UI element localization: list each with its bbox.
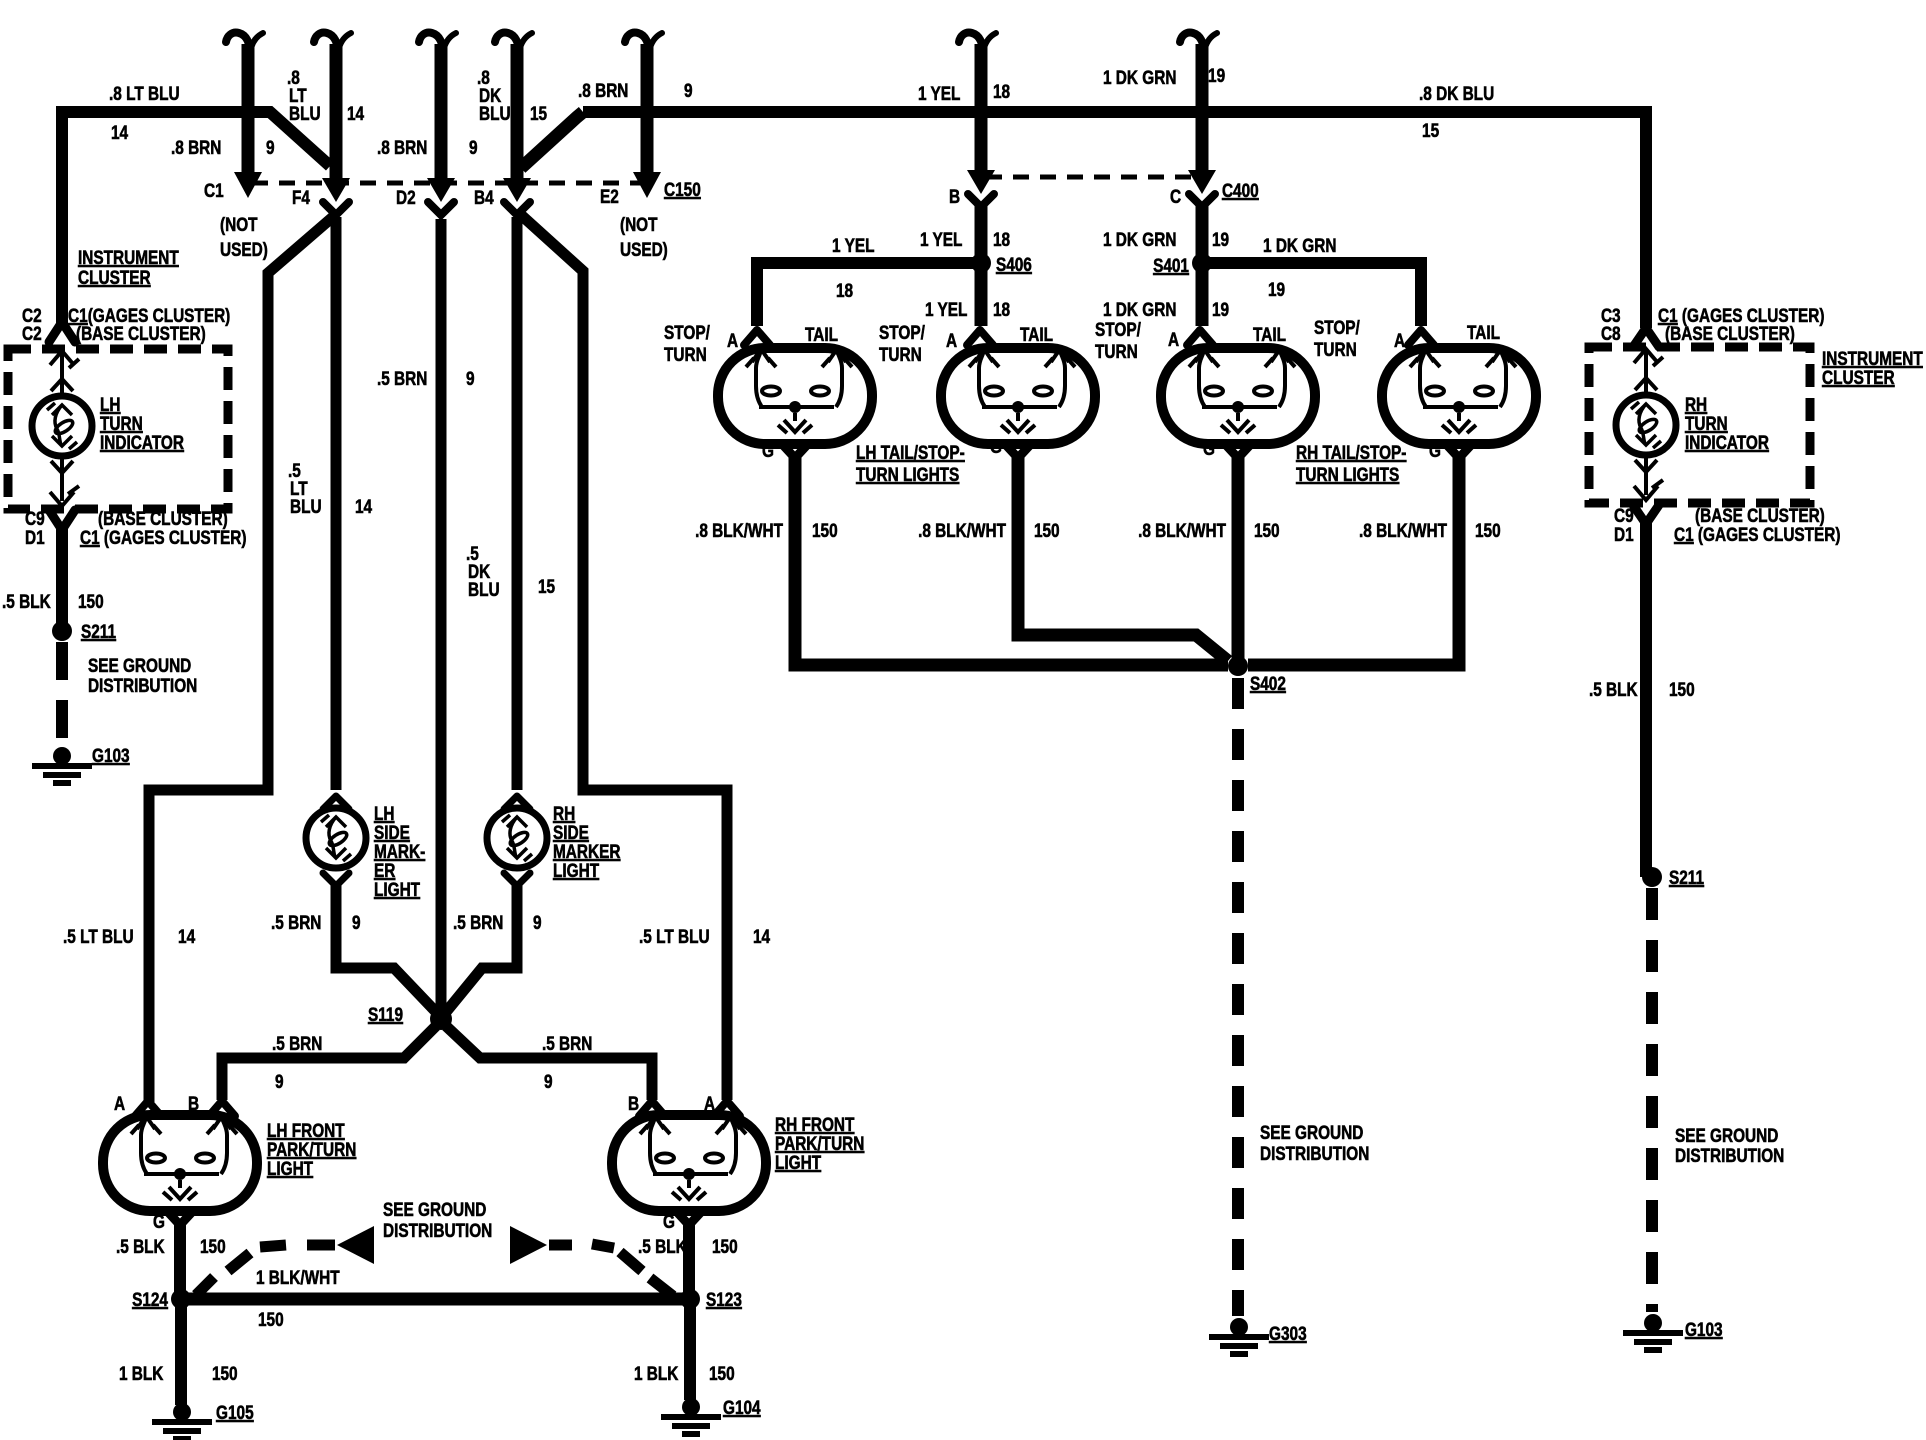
label S211 (right) bbox=[1669, 866, 1704, 888]
arrow out of cluster box bottom bbox=[50, 486, 79, 506]
label D2 bbox=[396, 186, 416, 208]
svg-text:1 YEL: 1 YEL bbox=[918, 82, 961, 104]
svg-text:TURN LIGHTS: TURN LIGHTS bbox=[1296, 463, 1399, 485]
svg-text:G: G bbox=[663, 1210, 675, 1232]
svg-text:A: A bbox=[1168, 328, 1180, 350]
svg-text:.5 BLK: .5 BLK bbox=[638, 1235, 687, 1257]
label G303 bbox=[1269, 1322, 1307, 1344]
arrow into cluster box top bbox=[50, 351, 79, 368]
hook top of E2 wire bbox=[625, 33, 662, 54]
label A (LH front) bbox=[114, 1092, 126, 1114]
svg-text:18: 18 bbox=[836, 279, 853, 301]
svg-text:INSTRUMENT: INSTRUMENT bbox=[78, 246, 179, 268]
label 15 (RH marker feed) bbox=[538, 575, 555, 597]
label .5 BLK (RH front ground) bbox=[638, 1235, 687, 1257]
wire: .8 BLK/WHT 150 ground from LH inner tail lamp toward S402 bbox=[1018, 456, 1228, 661]
svg-text:19: 19 bbox=[1212, 228, 1229, 250]
splice S119 bbox=[430, 1008, 452, 1030]
svg-text:B: B bbox=[188, 1092, 199, 1114]
connector fork at LH inner tail lamp A terminal bbox=[967, 330, 993, 345]
label STOP/TURN lamp3 bbox=[1095, 318, 1141, 362]
svg-text:G: G bbox=[1429, 439, 1441, 461]
ground G104 bbox=[661, 1398, 721, 1434]
wire: 1 BLK 150 from S123 to G104 bbox=[684, 1305, 696, 1400]
label 19 (S401 right branch) bbox=[1268, 278, 1285, 300]
label RH TURN INDICATOR bbox=[1685, 393, 1769, 453]
label 1 DK GRN (C wire top) bbox=[1103, 66, 1176, 88]
label TAIL lamp2 bbox=[1020, 323, 1053, 345]
svg-text:SEE GROUND: SEE GROUND bbox=[1675, 1124, 1778, 1146]
label .8 DK BLU (B4 wire, stacked) bbox=[477, 66, 511, 124]
svg-text:LH TAIL/STOP-: LH TAIL/STOP- bbox=[856, 441, 965, 463]
svg-text:150: 150 bbox=[1669, 678, 1695, 700]
label A lamp4 bbox=[1394, 329, 1406, 351]
svg-text:TURN: TURN bbox=[664, 343, 707, 365]
label S124 bbox=[132, 1288, 168, 1310]
label A lamp3 bbox=[1168, 328, 1180, 350]
wire: .5 BRN 9 from S119 to RH front park/turn lamp B bbox=[446, 1026, 652, 1100]
hook top of B wire bbox=[959, 33, 996, 54]
svg-text:18: 18 bbox=[993, 228, 1010, 250]
svg-text:S402: S402 bbox=[1250, 672, 1286, 694]
label STOP/TURN lamp2 bbox=[879, 321, 925, 365]
label 150 (S124-S123 wire) bbox=[258, 1308, 284, 1330]
svg-text:14: 14 bbox=[178, 925, 195, 947]
label LH TURN INDICATOR bbox=[100, 393, 184, 453]
lamp: LH front park/turn light bbox=[103, 1115, 257, 1211]
svg-text:STOP/: STOP/ bbox=[664, 321, 710, 343]
label 14 (F4 wire) bbox=[347, 102, 364, 124]
hook top of F4 wire bbox=[314, 33, 351, 54]
svg-text:15: 15 bbox=[530, 102, 547, 124]
label 19 (C wire top) bbox=[1208, 64, 1225, 86]
label C150 bbox=[664, 178, 701, 200]
svg-text:G104: G104 bbox=[723, 1396, 761, 1418]
label 150 (left) bbox=[78, 590, 104, 612]
lamp: RH inner tail/stop/turn light bbox=[1161, 348, 1315, 444]
connector fork below LH side marker light bbox=[323, 873, 349, 886]
wire: 1 YEL 18 from connector B down to splice S406 bbox=[975, 205, 988, 263]
svg-text:F4: F4 bbox=[292, 186, 310, 208]
lamp: RH side marker light bbox=[487, 808, 547, 868]
svg-text:S406: S406 bbox=[996, 253, 1032, 275]
svg-text:LIGHT: LIGHT bbox=[374, 878, 421, 900]
svg-text:150: 150 bbox=[1034, 519, 1060, 541]
wire: .8 BLK/WHT 150 ground from LH outer tail lamp to S402 bbox=[795, 456, 1228, 665]
svg-text:TAIL: TAIL bbox=[805, 323, 838, 345]
label F4 bbox=[292, 186, 310, 208]
label 150 lamp4 bbox=[1475, 519, 1501, 541]
connector fork above RH side marker light bbox=[504, 796, 530, 809]
dashed connector line C400 from B to C bbox=[986, 175, 1197, 180]
connector C1 arrow (not used) bbox=[234, 172, 262, 198]
svg-text:D1: D1 bbox=[25, 526, 45, 548]
label A (RH front) bbox=[704, 1092, 716, 1114]
svg-text:INDICATOR: INDICATOR bbox=[1685, 431, 1769, 453]
label .5 DK BLU (RH marker feed, stacked) bbox=[466, 542, 500, 600]
label 18 (S406 left branch) bbox=[836, 279, 853, 301]
arrow out of RH turn indicator lamp bottom bbox=[1635, 460, 1657, 472]
svg-text:B4: B4 bbox=[474, 186, 494, 208]
label 14 (top left horizontal) bbox=[111, 121, 128, 143]
label C1(GAGES CLUSTER) (left top) bbox=[68, 304, 230, 326]
wire: thin lead from lamp to box bottom bbox=[60, 457, 64, 501]
arrow at LH turn indicator lamp top bbox=[51, 379, 73, 391]
label C400 bbox=[1222, 179, 1259, 201]
svg-text:C1 (GAGES CLUSTER): C1 (GAGES CLUSTER) bbox=[1674, 523, 1841, 545]
wire: .5 LT BLU 14 from B4 diagonal to RH front park/turn lamp A bbox=[520, 214, 727, 1100]
svg-text:1 BLK: 1 BLK bbox=[634, 1362, 679, 1384]
hook top of C wire bbox=[1180, 33, 1217, 54]
wire: .8 BLK/WHT 150 ground from RH outer tail lamp to S402 bbox=[1248, 456, 1459, 665]
wire: 1 DK GRN 19 branch from S401 right and down to RH outer tail lamp A bbox=[1202, 263, 1421, 326]
arrow at RH turn indicator lamp top bbox=[1635, 378, 1657, 390]
svg-text:BLU: BLU bbox=[468, 578, 500, 600]
svg-text:RH TAIL/STOP-: RH TAIL/STOP- bbox=[1296, 441, 1407, 463]
splice S402 bbox=[1228, 656, 1248, 676]
label .5 BRN (RH marker lower) bbox=[453, 911, 503, 933]
svg-text:18: 18 bbox=[993, 298, 1010, 320]
wire: .5 LT BLU 14 from F4 down to LH side marker bbox=[331, 217, 342, 790]
label G103 (left) bbox=[92, 744, 130, 766]
connector fork below RH side marker light bbox=[504, 873, 530, 886]
splice S401 bbox=[1192, 253, 1212, 273]
lamp: RH front park/turn light bbox=[612, 1115, 766, 1211]
svg-text:SEE GROUND: SEE GROUND bbox=[88, 654, 191, 676]
splice S123 bbox=[680, 1289, 700, 1309]
lamp: LH outer tail/stop/turn light bbox=[718, 348, 872, 444]
label 150 lamp2 bbox=[1034, 519, 1060, 541]
svg-text:G105: G105 bbox=[216, 1401, 254, 1423]
label 15 (B4 wire) bbox=[530, 102, 547, 124]
label 1 YEL (B wire top) bbox=[918, 82, 961, 104]
label SEE GROUND DISTRIBUTION (center bottom) bbox=[383, 1198, 492, 1241]
svg-text:LIGHT: LIGHT bbox=[775, 1151, 822, 1173]
wire: .8 LT BLU 14 vertical into F4 bbox=[330, 44, 343, 180]
svg-text:D2: D2 bbox=[396, 186, 416, 208]
label STOP/TURN lamp4 bbox=[1314, 316, 1360, 360]
dashed wire from S402 to G303 ground bbox=[1232, 678, 1244, 1316]
svg-text:G303: G303 bbox=[1269, 1322, 1307, 1344]
label 9 (E2 wire) bbox=[684, 79, 693, 101]
svg-text:(NOT: (NOT bbox=[220, 213, 258, 235]
lamp: RH outer tail/stop/turn light bbox=[1382, 348, 1536, 444]
label S119 bbox=[368, 1003, 403, 1025]
svg-text:15: 15 bbox=[538, 575, 555, 597]
svg-text:9: 9 bbox=[684, 79, 693, 101]
label 1 BLK (G104) bbox=[634, 1362, 679, 1384]
connector fork at RH tail lamp A terminal bbox=[1187, 330, 1213, 345]
G terminal fork of LH outer tail lamp bbox=[782, 444, 808, 458]
svg-text:9: 9 bbox=[266, 136, 275, 158]
svg-text:CLUSTER: CLUSTER bbox=[78, 266, 151, 288]
label C9 D1 (left) bbox=[25, 507, 45, 548]
connector fork at LH tail lamp A terminal bbox=[744, 330, 770, 345]
label C1 (GAGES CLUSTER) (right top) bbox=[1658, 304, 1825, 326]
label SEE GROUND DISTRIBUTION (left) bbox=[88, 654, 197, 696]
svg-text:.8 BLK/WHT: .8 BLK/WHT bbox=[1359, 519, 1447, 541]
svg-text:19: 19 bbox=[1268, 278, 1285, 300]
label G lamp4 bbox=[1429, 439, 1441, 461]
label C (connector C400) bbox=[1170, 185, 1181, 207]
connector C2 fork at LH turn indicator bbox=[49, 322, 75, 342]
connector C9 fork below cluster box bbox=[49, 510, 75, 530]
label 150 (G105) bbox=[212, 1362, 238, 1384]
label B4 bbox=[474, 186, 494, 208]
svg-text:TURN LIGHTS: TURN LIGHTS bbox=[856, 463, 959, 485]
svg-text:A: A bbox=[114, 1092, 126, 1114]
svg-text:STOP/: STOP/ bbox=[1095, 318, 1141, 340]
svg-text:SEE GROUND: SEE GROUND bbox=[1260, 1121, 1363, 1143]
connector E2 arrow (not used) bbox=[633, 172, 661, 198]
wire: .5 BLK 150 from RH C9 to splice S211 bbox=[1646, 522, 1652, 871]
label 150 (G104) bbox=[709, 1362, 735, 1384]
label RH FRONT PARK/TURN LIGHT bbox=[775, 1113, 864, 1173]
svg-text:.5 LT BLU: .5 LT BLU bbox=[63, 925, 134, 947]
label 1 DK GRN (below S401) bbox=[1103, 298, 1176, 320]
label .5 LT BLU (LH front feed) bbox=[63, 925, 134, 947]
svg-text:1 DK GRN: 1 DK GRN bbox=[1103, 298, 1176, 320]
wire: .8 DK BLU 15 right corner down to RH instrument cluster bbox=[1640, 112, 1646, 328]
arrow into RH cluster box top bbox=[1634, 349, 1663, 366]
svg-text:150: 150 bbox=[1475, 519, 1501, 541]
label G lamp3 bbox=[1203, 437, 1215, 459]
label LH TAIL/STOP-TURN LIGHTS bbox=[856, 441, 965, 485]
svg-text:G: G bbox=[762, 439, 774, 461]
label 18 (below B) bbox=[993, 228, 1010, 250]
label .8 LT BLU (F4 wire, stacked) bbox=[287, 66, 321, 124]
svg-text:.5 BRN: .5 BRN bbox=[272, 1032, 322, 1054]
label RH TAIL/STOP-TURN LIGHTS bbox=[1296, 441, 1407, 485]
svg-text:150: 150 bbox=[212, 1362, 238, 1384]
label C2 C2 bbox=[22, 304, 42, 344]
svg-text:1 DK GRN: 1 DK GRN bbox=[1103, 66, 1176, 88]
label S123 bbox=[706, 1288, 742, 1310]
label G104 bbox=[723, 1396, 761, 1418]
label A lamp1 bbox=[727, 329, 739, 351]
label 150 lamp1 bbox=[812, 519, 838, 541]
svg-text:.5 BRN: .5 BRN bbox=[453, 911, 503, 933]
connector fork above LH side marker light bbox=[323, 796, 349, 809]
svg-text:D1: D1 bbox=[1614, 523, 1634, 545]
label (NOT USED) at C1 bbox=[220, 213, 268, 260]
label .8 BLK/WHT lamp1 bbox=[695, 519, 783, 541]
dashed wire from S211 to G103 (left) bbox=[56, 642, 68, 747]
label G (LH front) bbox=[153, 1210, 165, 1232]
lamp: LH side marker light bbox=[306, 808, 366, 868]
svg-text:USED): USED) bbox=[620, 238, 668, 260]
svg-text:TAIL: TAIL bbox=[1020, 323, 1053, 345]
label G (RH front) bbox=[663, 1210, 675, 1232]
svg-text:1 BLK/WHT: 1 BLK/WHT bbox=[256, 1266, 340, 1288]
svg-text:S123: S123 bbox=[706, 1288, 742, 1310]
svg-text:9: 9 bbox=[275, 1070, 284, 1092]
svg-text:LIGHT: LIGHT bbox=[267, 1157, 314, 1179]
dashed lead from S124 to see-ground-distribution arrow bbox=[196, 1245, 335, 1295]
wire: .5 DK BLU 15 from B4 down to RH side marker bbox=[512, 217, 523, 790]
wire: .8 BRN 9 vertical into D2 bbox=[435, 44, 448, 180]
lamp: LH inner tail/stop/turn light bbox=[941, 348, 1095, 444]
wire: .5 BRN 9 from RH side marker down to S119 bbox=[446, 884, 517, 1012]
svg-text:SEE GROUND: SEE GROUND bbox=[383, 1198, 486, 1220]
label (BASE CLUSTER) (right top) bbox=[1665, 322, 1795, 344]
label B (RH front) bbox=[628, 1092, 639, 1114]
G terminal fork of RH front lamp bbox=[676, 1211, 702, 1225]
label A lamp2 bbox=[946, 329, 958, 351]
svg-text:9: 9 bbox=[533, 911, 542, 933]
svg-text:A: A bbox=[946, 329, 958, 351]
svg-text:(BASE CLUSTER): (BASE CLUSTER) bbox=[76, 322, 206, 344]
lamp: LH turn indicator bbox=[32, 396, 92, 456]
G terminal fork of LH front lamp bbox=[167, 1211, 193, 1225]
svg-text:1 BLK: 1 BLK bbox=[119, 1362, 164, 1384]
svg-text:.8 BRN: .8 BRN bbox=[578, 79, 628, 101]
svg-text:1 YEL: 1 YEL bbox=[832, 234, 875, 256]
label G lamp2 bbox=[990, 435, 1002, 457]
label 9 (S119 to LH front) bbox=[275, 1070, 284, 1092]
label 19 (below C) bbox=[1212, 228, 1229, 250]
svg-text:9: 9 bbox=[469, 136, 478, 158]
svg-text:A: A bbox=[1394, 329, 1406, 351]
connector fork at RH front lamp A terminal bbox=[714, 1101, 740, 1116]
svg-text:G103: G103 bbox=[92, 744, 130, 766]
label .8 DK BLU (top right horizontal) bbox=[1419, 82, 1494, 104]
label 19 (below S401) bbox=[1212, 298, 1229, 320]
svg-text:1 YEL: 1 YEL bbox=[920, 228, 963, 250]
svg-text:.5 BLK: .5 BLK bbox=[116, 1235, 165, 1257]
svg-text:14: 14 bbox=[355, 495, 372, 517]
svg-text:E2: E2 bbox=[600, 185, 619, 207]
wire: 1 DK GRN 19 vertical into connector C bbox=[1196, 44, 1209, 172]
label 1 YEL (below B) bbox=[920, 228, 963, 250]
label .8 BLK/WHT lamp2 bbox=[918, 519, 1006, 541]
svg-text:INDICATOR: INDICATOR bbox=[100, 431, 184, 453]
G terminal fork of LH inner tail lamp bbox=[1005, 444, 1031, 458]
svg-text:.5 BRN: .5 BRN bbox=[271, 911, 321, 933]
label B (LH front) bbox=[188, 1092, 199, 1114]
connector fork at LH front lamp B terminal bbox=[209, 1101, 235, 1116]
connector D2 bbox=[427, 178, 455, 215]
label S401 bbox=[1153, 254, 1189, 276]
svg-text:.8 BRN: .8 BRN bbox=[171, 136, 221, 158]
label 14 (LH front feed) bbox=[178, 925, 195, 947]
wire: stub and diagonal from horizontal into connector F4 bbox=[248, 112, 330, 166]
svg-text:TAIL: TAIL bbox=[1467, 321, 1500, 343]
label (NOT USED) at E2 bbox=[620, 213, 668, 260]
wire: 1 BLK 150 from S124 to G105 bbox=[175, 1305, 187, 1405]
svg-text:BLU: BLU bbox=[290, 495, 322, 517]
wire: thin lead to LH turn indicator lamp bbox=[60, 354, 64, 393]
label .8 BRN (C1 wire) bbox=[171, 136, 221, 158]
svg-text:150: 150 bbox=[712, 1235, 738, 1257]
label 18 (below S406) bbox=[993, 298, 1010, 320]
svg-text:14: 14 bbox=[753, 925, 770, 947]
svg-text:STOP/: STOP/ bbox=[1314, 316, 1360, 338]
splice S211 (left) bbox=[52, 621, 72, 641]
svg-text:1 DK GRN: 1 DK GRN bbox=[1103, 228, 1176, 250]
svg-text:.8 DK BLU: .8 DK BLU bbox=[1419, 82, 1494, 104]
label 150 (right) bbox=[1669, 678, 1695, 700]
svg-text:C1 (GAGES CLUSTER): C1 (GAGES CLUSTER) bbox=[80, 526, 247, 548]
wire: E2 vertical (not used) bbox=[641, 44, 654, 172]
label G103 (right) bbox=[1685, 1318, 1723, 1340]
svg-text:BLU: BLU bbox=[289, 102, 321, 124]
arrow out of LH turn indicator lamp bottom bbox=[51, 461, 73, 473]
svg-text:.8 LT BLU: .8 LT BLU bbox=[109, 82, 180, 104]
label G105 bbox=[216, 1401, 254, 1423]
svg-text:C1: C1 bbox=[204, 179, 224, 201]
wire: top long horizontal .8 BRN / 1 YEL / 1 DK GRN / .8 DK BLU bbox=[583, 106, 1646, 118]
splice S406 bbox=[971, 253, 991, 273]
connector fork at LH front lamp A terminal bbox=[135, 1101, 161, 1116]
wire: 1 DK GRN 19 from connector C down to splice S401 bbox=[1196, 205, 1209, 263]
svg-text:B: B bbox=[628, 1092, 639, 1114]
label C3 C8 bbox=[1601, 304, 1621, 344]
svg-text:18: 18 bbox=[993, 80, 1010, 102]
label RH SIDE MARKER LIGHT bbox=[553, 802, 621, 881]
dashed box: instrument cluster (LH turn indicator) bbox=[8, 349, 228, 509]
svg-text:STOP/: STOP/ bbox=[879, 321, 925, 343]
connector fork at RH outer tail lamp A terminal bbox=[1408, 330, 1434, 345]
svg-text:19: 19 bbox=[1212, 298, 1229, 320]
label C1 (GAGES CLUSTER) (left bottom) bbox=[80, 526, 247, 548]
label (BASE CLUSTER) (left bottom) bbox=[98, 507, 228, 529]
G terminal fork of RH inner tail lamp bbox=[1225, 444, 1251, 458]
connector F4 bbox=[322, 178, 350, 215]
label SEE GROUND DISTRIBUTION (S402 column) bbox=[1260, 1121, 1369, 1164]
svg-text:G: G bbox=[153, 1210, 165, 1232]
svg-text:9: 9 bbox=[544, 1070, 553, 1092]
dashed box: instrument cluster (RH turn indicator) bbox=[1589, 347, 1810, 503]
svg-text:DISTRIBUTION: DISTRIBUTION bbox=[1675, 1144, 1784, 1166]
svg-text:TURN: TURN bbox=[1314, 338, 1357, 360]
dashed wire from right S211 to G103 bbox=[1646, 888, 1658, 1312]
svg-text:.5 LT BLU: .5 LT BLU bbox=[639, 925, 710, 947]
svg-text:.8 BLK/WHT: .8 BLK/WHT bbox=[695, 519, 783, 541]
wire: .8 LT BLU feed from instrument cluster, top left horizontal bbox=[62, 112, 242, 328]
label 9 (S119 to RH front) bbox=[544, 1070, 553, 1092]
svg-text:G: G bbox=[990, 435, 1002, 457]
label 9 (C1 wire) bbox=[266, 136, 275, 158]
connector C9/D1 fork below RH cluster box bbox=[1633, 505, 1659, 524]
svg-text:C150: C150 bbox=[664, 178, 701, 200]
label TAIL lamp1 bbox=[805, 323, 838, 345]
wire: .8 BRN 9 diagonal from B4 up to top horizontal bbox=[521, 112, 583, 168]
wire: thin lead to RH turn indicator lamp bbox=[1644, 352, 1648, 392]
svg-text:BLU: BLU bbox=[479, 102, 511, 124]
label .5 LT BLU (side marker feed, stacked) bbox=[288, 459, 322, 517]
label .5 BRN (S119 to LH front) bbox=[272, 1032, 322, 1054]
dashed connector line C150 from C1 to E2 bbox=[252, 181, 643, 186]
label 14 (side marker feed) bbox=[355, 495, 372, 517]
hook top of D2 wire bbox=[419, 33, 456, 54]
svg-text:14: 14 bbox=[347, 102, 364, 124]
svg-text:C2: C2 bbox=[22, 322, 42, 344]
svg-text:LIGHT: LIGHT bbox=[553, 859, 600, 881]
label .5 BRN (D2 mid) bbox=[377, 367, 427, 389]
svg-text:DISTRIBUTION: DISTRIBUTION bbox=[1260, 1142, 1369, 1164]
wire: .5 BRN 9 from LH side marker down to S119 bbox=[336, 884, 436, 1012]
svg-text:150: 150 bbox=[78, 590, 104, 612]
wire: 1 BLK/WHT 150 between S124 and S123 bbox=[181, 1293, 690, 1306]
label 1 BLK/WHT bbox=[256, 1266, 340, 1288]
connector C3/C8 fork at RH turn indicator bbox=[1633, 328, 1659, 347]
connector C of C400 bbox=[1188, 170, 1216, 207]
label 150 lamp3 bbox=[1254, 519, 1280, 541]
svg-text:9: 9 bbox=[352, 911, 361, 933]
label LH SIDE MARK-ER LIGHT bbox=[374, 802, 425, 900]
wire: .8 BLK/WHT 150 ground from RH inner tail lamp to S402 bbox=[1232, 456, 1245, 660]
